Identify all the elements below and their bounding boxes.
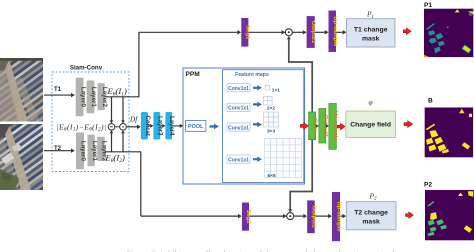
wire drop E1 to minus — [111, 97, 113, 121]
svg-text:Layer1: Layer1 — [90, 87, 97, 108]
wire Concat-Layer3 — [148, 125, 151, 127]
encoder row1 Layer1 — [87, 81, 98, 114]
svg-text:Seg2: Seg2 — [245, 210, 251, 225]
conv green bar — [309, 112, 318, 140]
Siam-Conv dashed box — [52, 72, 129, 172]
concat bar — [141, 112, 150, 140]
wire row2 feature line — [105, 152, 141, 216]
svg-text:B: B — [428, 98, 433, 105]
wire conv-output3 — [315, 125, 318, 127]
seg1 purple bar — [241, 18, 250, 47]
svg-text:Figure 2: (a) this overall arc: Figure 2: (a) this overall architecture … — [125, 248, 396, 252]
svg-text:mask: mask — [362, 36, 380, 43]
node top mult circle — [285, 29, 292, 36]
seg2 purple bar — [242, 203, 251, 231]
arrow conv3 — [253, 122, 262, 127]
node hadamard circle — [120, 124, 127, 131]
encoder row2 Layer1 — [88, 135, 98, 167]
svg-text:Conv1x1: Conv1x1 — [228, 86, 249, 92]
wire bottom rail to Seg2 — [141, 215, 238, 217]
red arrow PPM to Conv — [300, 122, 308, 129]
svg-text:Up-sample: Up-sample — [332, 16, 338, 47]
svg-text:Output2: Output2 — [311, 206, 317, 229]
grid 3x3 — [264, 112, 279, 127]
encoder row1 Layer2 — [98, 83, 108, 110]
node minus circle — [108, 124, 115, 131]
svg-text:Layer1: Layer1 — [91, 141, 98, 162]
svg-text:T1: T1 — [54, 87, 62, 93]
svg-text:Layer0: Layer0 — [79, 87, 86, 108]
wire Up-sample to T1 mask — [336, 31, 343, 33]
up-sample green bar — [329, 104, 338, 150]
result image P1 — [424, 9, 473, 58]
encoder row2 Layer0 — [76, 133, 87, 170]
wire T1 arrow — [44, 94, 71, 96]
T2 change mask box — [346, 202, 396, 230]
result image B — [425, 107, 474, 157]
svg-text:2×2: 2×2 — [267, 106, 275, 112]
encoder row2 Layer2 — [97, 137, 108, 162]
conv1x1 box 1 — [227, 84, 250, 92]
svg-text:φ: φ — [369, 98, 373, 107]
output3 green bar — [319, 109, 328, 144]
change field box — [346, 111, 396, 138]
svg-text:Eθ(I1): Eθ(I1) — [107, 86, 128, 98]
svg-text:Change field: Change field — [350, 122, 391, 129]
wire riser E2 to minus — [111, 133, 113, 152]
T1 change mask box — [347, 19, 396, 47]
conv1x1 box 2 — [227, 103, 250, 111]
wire row1 feature line — [105, 32, 139, 97]
svg-text:Eθ(I2): Eθ(I2) — [105, 152, 126, 164]
POOL box — [186, 121, 206, 132]
arrow conv1 — [253, 85, 262, 90]
wire Layer4-PPM — [172, 125, 181, 127]
up-sample2 purple bar — [332, 192, 342, 241]
node bottom mult circle — [287, 213, 294, 220]
wire minus to dot — [115, 126, 120, 128]
svg-text:Seg1: Seg1 — [244, 25, 250, 40]
wire circle to Output1 — [292, 31, 303, 33]
feature maps box — [223, 70, 304, 183]
arrow conv4 — [253, 157, 262, 162]
satellite image T2 — [0, 83, 94, 224]
conv1x1 box 3 — [227, 123, 250, 131]
svg-text:P1: P1 — [424, 2, 432, 9]
PPM outer box — [183, 68, 305, 184]
encoder row1 Layer0 — [76, 78, 87, 117]
grid 6x6 — [265, 138, 302, 177]
svg-text:P2: P2 — [424, 182, 432, 189]
wire T2 arrow — [44, 150, 71, 152]
svg-text:Siam-Conv: Siam-Conv — [70, 64, 103, 71]
red arrow T1 to P1 — [403, 28, 411, 35]
svg-text:Layer0: Layer0 — [80, 141, 87, 162]
wire Df arrow to Concat — [126, 126, 137, 128]
svg-text:Output1: Output1 — [310, 21, 316, 44]
svg-text:Conv1x1: Conv1x1 — [228, 106, 249, 112]
satellite image T1 — [0, 16, 94, 157]
grid 2x2 — [264, 96, 273, 105]
arrow POOL-featuremaps — [210, 124, 220, 130]
svg-text:T1 change: T1 change — [354, 27, 388, 34]
output1 purple bar — [307, 16, 317, 48]
svg-text:1×1: 1×1 — [272, 87, 280, 93]
svg-text:mask: mask — [362, 218, 380, 225]
svg-text:POOL: POOL — [188, 124, 204, 130]
grid 1x1 — [265, 85, 270, 90]
red arrow change field to B — [404, 121, 413, 128]
layer4 bar — [165, 112, 174, 140]
wire top rail to Seg1 — [139, 31, 238, 33]
wire output3-upsample — [325, 125, 328, 127]
svg-text:Conv1x1: Conv1x1 — [228, 125, 249, 131]
wire Layer3-Layer4 — [160, 125, 162, 127]
wire conv bar to top circle — [289, 39, 312, 112]
wire conv bar to bottom circle — [290, 140, 312, 210]
wire riser E2 to dot — [122, 133, 124, 152]
output2 purple bar — [307, 200, 316, 233]
arrow conv2 — [253, 102, 262, 107]
svg-text:6×6: 6×6 — [268, 173, 276, 179]
svg-text:Feature maps: Feature maps — [235, 72, 269, 78]
svg-text:Up-sample: Up-sample — [336, 202, 342, 233]
wire circle to Output2 — [294, 215, 304, 217]
wire Output1 to Up-sample — [315, 31, 325, 33]
wire Seg1 to mult circle — [248, 31, 282, 33]
svg-text:3×3: 3×3 — [267, 128, 275, 134]
wire Seg2 to mult circle — [249, 215, 283, 217]
wire Output2 to Up-sample — [315, 215, 329, 217]
red arrow upsample to change field — [337, 123, 345, 130]
conv1x1 box 4 — [227, 155, 250, 163]
red arrow T2 to P2 — [406, 212, 414, 219]
svg-text:Df: Df — [129, 116, 138, 124]
wire Up-sample to T2 mask — [340, 215, 343, 217]
up-sample1 purple bar — [329, 11, 338, 53]
svg-text:Conv1x1: Conv1x1 — [228, 157, 249, 163]
result image P2 — [425, 190, 474, 240]
svg-text:PPM: PPM — [186, 71, 201, 78]
wire drop E1 to dot — [122, 97, 124, 121]
svg-text:T2 change: T2 change — [354, 209, 388, 216]
layer3 bar — [153, 112, 162, 140]
